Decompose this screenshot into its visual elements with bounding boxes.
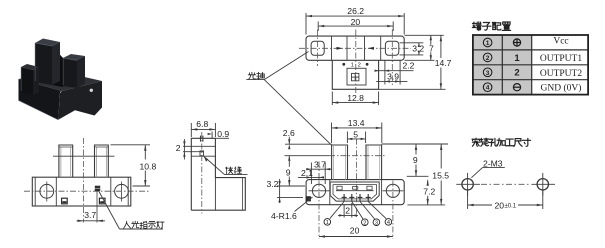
front vertical centerline <box>83 138 85 223</box>
dim 2.6 <box>285 137 332 162</box>
bottom view left prong <box>332 145 348 180</box>
dim 3.9 <box>376 61 407 85</box>
dim 2.2 <box>376 61 414 74</box>
bottom optical axis <box>329 155 385 157</box>
mounting hole right <box>531 173 555 196</box>
minus terminal symbol <box>513 84 520 91</box>
indicator white dot <box>90 89 93 92</box>
terminal table <box>473 35 588 95</box>
svg-text:1: 1 <box>326 220 329 226</box>
plus terminal symbol <box>513 39 520 46</box>
svg-text:3: 3 <box>375 220 378 226</box>
bottom hole right <box>382 184 403 197</box>
tower R right <box>77 56 85 88</box>
svg-text:2: 2 <box>514 68 519 79</box>
svg-text:9: 9 <box>413 155 418 165</box>
svg-text:OUTPUT2: OUTPUT2 <box>540 69 582 79</box>
dim 12.8 <box>332 92 378 106</box>
bottom indicator square <box>306 196 311 201</box>
connector housing <box>330 182 379 201</box>
leader to indicator label <box>99 192 163 230</box>
hole centerlines extended <box>319 139 393 239</box>
svg-text:2.2: 2.2 <box>403 61 415 71</box>
top view connector outline <box>347 68 366 85</box>
dim 14.7 <box>379 35 446 89</box>
edge highlights <box>21 44 63 92</box>
top view hole centerlines <box>299 30 411 96</box>
svg-text:2: 2 <box>345 205 350 215</box>
centerline between holes <box>481 183 529 185</box>
tower L top <box>35 39 60 47</box>
svg-text:2.1: 2.1 <box>301 168 313 178</box>
pin dots and numbers <box>342 63 345 66</box>
circled row numbers <box>483 38 492 91</box>
dim 7 top view <box>405 35 444 60</box>
svg-text:9: 9 <box>286 167 291 177</box>
svg-text:2: 2 <box>176 143 181 153</box>
base right face <box>58 81 102 120</box>
top view bar outline <box>306 36 404 60</box>
base top face <box>19 71 103 91</box>
left block right <box>33 67 39 95</box>
mounting hole left <box>456 173 480 196</box>
svg-text:GND (0V): GND (0V) <box>541 83 582 94</box>
front small terminal mark right <box>99 198 105 204</box>
leader to slit label <box>204 157 248 175</box>
label 光轴 <box>248 72 264 79</box>
svg-text:7.2: 7.2 <box>423 186 435 196</box>
dim 9 left <box>277 162 305 187</box>
svg-text:20: 20 <box>495 200 505 210</box>
svg-text:Vcc: Vcc <box>553 36 568 46</box>
label 入光指示灯 <box>124 221 164 228</box>
product photo: photomicrosensor isometric <box>19 39 103 120</box>
dim 13.4 <box>332 123 382 144</box>
dim 6.8 <box>191 123 215 137</box>
dim 2 side <box>183 139 185 160</box>
svg-text:2-M3: 2-M3 <box>483 159 503 169</box>
dim 0.9 <box>211 132 213 139</box>
svg-text:4: 4 <box>486 85 490 92</box>
svg-text:1: 1 <box>486 40 490 47</box>
svg-text:20: 20 <box>350 225 360 235</box>
svg-text:±0.1: ±0.1 <box>505 204 517 210</box>
tower L front <box>35 43 52 85</box>
front horizontal centerline <box>24 190 150 192</box>
svg-text:2: 2 <box>486 55 490 62</box>
dim 26.2 <box>306 13 404 35</box>
label 狭缝 <box>226 167 242 174</box>
svg-text:4: 4 <box>387 220 390 226</box>
svg-text:3.7: 3.7 <box>314 159 326 169</box>
top view connector socket <box>352 73 359 80</box>
connector pins <box>342 194 371 201</box>
pin leader lines <box>330 202 386 220</box>
dim 20±0.1 <box>468 191 543 211</box>
svg-text:6.8: 6.8 <box>196 119 208 129</box>
circled pin numbers <box>324 219 392 226</box>
dim 3.2 top view <box>400 43 424 55</box>
svg-text:3.2: 3.2 <box>412 44 424 54</box>
bottom view body bar <box>306 180 404 205</box>
optical axis arrows <box>337 47 344 50</box>
tower R top <box>63 54 85 60</box>
side view outline <box>191 138 245 210</box>
left block front <box>21 67 33 95</box>
svg-text:1: 1 <box>351 63 354 69</box>
base left face <box>19 79 63 120</box>
bottom view right prong <box>366 145 382 180</box>
bottom hole left <box>309 184 330 197</box>
side slit lines <box>183 136 215 156</box>
left block top <box>21 64 39 70</box>
svg-text:3: 3 <box>486 70 490 77</box>
top view right hole <box>385 41 398 55</box>
tower L right <box>52 42 60 85</box>
dim 20 bottom <box>319 236 393 238</box>
svg-text:15.5: 15.5 <box>432 170 449 180</box>
optical axis leaders <box>246 52 331 146</box>
svg-text:5: 5 <box>353 129 358 139</box>
dim 3.7 bottom view <box>306 163 332 185</box>
svg-text:3.7: 3.7 <box>84 210 96 220</box>
slot shadow <box>52 46 63 87</box>
2-M3 label <box>471 159 504 178</box>
svg-text:26.2: 26.2 <box>347 6 364 16</box>
svg-text:3.2: 3.2 <box>267 179 279 189</box>
front optical axis line <box>53 155 115 157</box>
dim 9 right <box>382 144 448 176</box>
svg-text:2: 2 <box>358 63 361 69</box>
dim 3.2 left <box>277 179 303 203</box>
svg-text:7: 7 <box>429 43 434 53</box>
svg-text:12.8: 12.8 <box>347 93 364 103</box>
svg-text:20: 20 <box>351 17 361 27</box>
front view body outline <box>32 177 131 206</box>
svg-text:3.9: 3.9 <box>387 71 399 81</box>
svg-text:13.4: 13.4 <box>348 118 365 128</box>
side top edge extension <box>215 137 229 139</box>
svg-text:0.9: 0.9 <box>217 129 229 139</box>
dim 15.5 <box>407 144 445 205</box>
svg-text:2: 2 <box>363 220 366 226</box>
dim 7.2 <box>427 180 429 205</box>
top view stem <box>332 60 378 89</box>
svg-text:1: 1 <box>514 53 520 64</box>
front right mounting hole <box>115 182 129 202</box>
svg-text:14.7: 14.7 <box>435 58 452 68</box>
front left mounting hole <box>40 182 54 202</box>
mounting-hole title 安装孔加工尺寸 <box>472 138 531 146</box>
leader 4-R1.6 <box>295 197 313 212</box>
dim 2.1 <box>298 162 322 181</box>
dim 2 pins <box>338 203 358 218</box>
svg-text:2.6: 2.6 <box>283 128 295 138</box>
svg-text:10.8: 10.8 <box>140 161 157 171</box>
front view right prong <box>95 145 109 177</box>
side optical axis line <box>191 155 215 157</box>
dim 20 top <box>318 22 393 32</box>
dim 10.8 <box>111 145 151 186</box>
svg-text:4-R1.6: 4-R1.6 <box>271 211 297 221</box>
tower R front <box>63 58 77 88</box>
terminal table title 端子配置 <box>472 22 510 31</box>
front small terminal mark left <box>62 198 68 204</box>
dim 3.7 front <box>77 220 106 222</box>
side vertical centerline <box>201 132 203 214</box>
front view left prong <box>59 145 73 177</box>
svg-text:OUTPUT1: OUTPUT1 <box>540 54 582 64</box>
indicator LED square <box>95 186 100 223</box>
dim 5 <box>347 132 365 144</box>
top view left hole <box>311 41 324 55</box>
